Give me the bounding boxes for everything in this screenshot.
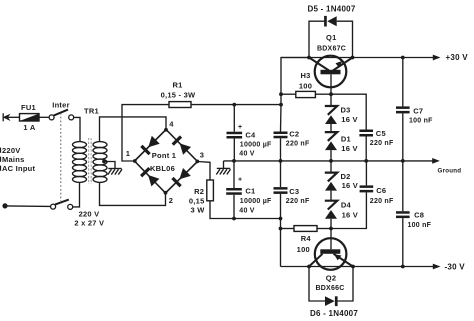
svg-text:BDX66C: BDX66C: [315, 285, 344, 292]
transistor Q2: [309, 229, 353, 270]
svg-text:TR1: TR1: [84, 106, 99, 115]
svg-text:R2: R2: [194, 187, 204, 196]
svg-text:KBL06: KBL06: [150, 164, 175, 173]
svg-text:2: 2: [169, 196, 173, 205]
svg-text:D3: D3: [341, 106, 351, 115]
node zener mid: [329, 159, 333, 163]
ground rail: [224, 158, 440, 164]
svg-text:C8: C8: [414, 210, 424, 219]
switch link dashed: [60, 113, 62, 201]
svg-text:FU1: FU1: [21, 103, 36, 112]
svg-text:AC Input: AC Input: [2, 164, 35, 173]
capacitor C6: [360, 161, 374, 193]
resistor R3: [281, 91, 331, 97]
zener D1: [325, 124, 337, 161]
wire pin3 to R2: [198, 162, 211, 181]
wire base Q2 to C6: [331, 192, 366, 228]
capacitor C4: [227, 105, 243, 161]
svg-text:Mains: Mains: [2, 155, 25, 164]
node riser: [279, 103, 283, 107]
capacitor C5: [359, 130, 373, 161]
svg-text:220 nF: 220 nF: [286, 198, 310, 205]
label 220V Mains AC Input: [0, 146, 35, 173]
svg-text:BDX67C: BDX67C: [317, 46, 346, 53]
svg-text:-30 V: -30 V: [445, 263, 466, 272]
node C2/C3: [279, 159, 283, 163]
capacitor C3: [274, 161, 288, 267]
svg-text:C6: C6: [376, 186, 386, 195]
ground (rail left end): [216, 161, 230, 175]
AC input dot bottom: [2, 203, 7, 208]
svg-text:100: 100: [297, 245, 310, 254]
node C7 top: [401, 56, 405, 60]
svg-text:1 A: 1 A: [23, 123, 35, 132]
wire base node to C5: [331, 94, 366, 129]
bridge rectifier Pont 1 KBL06: [133, 128, 199, 195]
zener D4: [325, 191, 337, 229]
switch S1a: [49, 110, 74, 120]
svg-text:1: 1: [126, 149, 130, 158]
svg-text:100 nF: 100 nF: [408, 222, 432, 229]
switch S1b: [51, 200, 73, 210]
node C4/C1: [232, 159, 236, 163]
svg-text:C3: C3: [289, 187, 299, 196]
wire bridge + to R1: [122, 105, 169, 161]
bridge diode top-right: [173, 137, 191, 155]
svg-text:D6 - 1N4007: D6 - 1N4007: [310, 309, 358, 318]
svg-text:220 nF: 220 nF: [370, 198, 394, 205]
wire secondary bottom to bridge AC2: [100, 182, 166, 205]
svg-text:3: 3: [200, 150, 204, 159]
svg-text:C4: C4: [245, 131, 256, 140]
node C8 bottom: [401, 265, 405, 269]
ground (center tap): [108, 169, 122, 175]
svg-text:3 W: 3 W: [190, 205, 205, 214]
svg-text:+30 V: +30 V: [446, 53, 469, 62]
svg-text:220 nF: 220 nF: [286, 140, 310, 147]
node C5 bottom: [364, 159, 368, 163]
svg-text:+: +: [238, 124, 242, 131]
resistor R1: [169, 102, 191, 108]
svg-text:16 V: 16 V: [342, 210, 358, 219]
svg-text:Q1: Q1: [326, 33, 337, 42]
svg-text:40 V: 40 V: [239, 207, 254, 214]
node Q2 left: [307, 265, 311, 269]
node Q2 right: [351, 265, 355, 269]
node Q1 right: [351, 56, 355, 60]
wire R1 to riser: [191, 104, 281, 106]
transistor Q1: [309, 56, 353, 94]
svg-text:10000 µF: 10000 µF: [240, 198, 272, 205]
node R3 left: [279, 92, 283, 96]
capacitor C2: [274, 105, 288, 161]
svg-text:H3: H3: [300, 71, 310, 80]
svg-text:C5: C5: [376, 129, 386, 138]
svg-text:4: 4: [169, 120, 174, 129]
svg-text:Pont 1: Pont 1: [152, 151, 176, 160]
svg-text:C2: C2: [289, 130, 299, 139]
transformer TR1 primary: [73, 142, 87, 183]
resistor R4: [281, 226, 332, 232]
svg-text:220V: 220V: [2, 146, 21, 155]
-30V rail: [281, 264, 441, 270]
svg-text:10000 µF: 10000 µF: [240, 141, 272, 148]
svg-text:D4: D4: [341, 201, 352, 210]
wire secondary top to bridge AC1: [100, 117, 167, 142]
node base Q2: [329, 227, 333, 231]
zener D3: [325, 94, 337, 124]
svg-text:0,15 - 3W: 0,15 - 3W: [161, 91, 196, 100]
bridge diode bottom-left: [141, 168, 159, 186]
svg-text:16 V: 16 V: [342, 181, 358, 190]
svg-text:100 nF: 100 nF: [409, 117, 433, 124]
svg-text:D2: D2: [341, 172, 351, 181]
svg-text:2 x 27 V: 2 x 27 V: [74, 218, 104, 227]
bridge diode top-left: [141, 136, 159, 154]
svg-text:+: +: [238, 176, 242, 183]
capacitor C1: [226, 161, 242, 219]
svg-text:R1: R1: [172, 81, 182, 90]
wire: [39, 116, 49, 118]
center tap: [102, 160, 115, 169]
wire: [74, 117, 80, 141]
svg-text:Q2: Q2: [326, 273, 337, 282]
svg-text:100: 100: [299, 81, 312, 90]
diode D6: [309, 267, 353, 307]
svg-text:16 V: 16 V: [341, 115, 357, 124]
svg-text:16 V: 16 V: [341, 144, 357, 153]
capacitor C8: [396, 161, 410, 267]
node C4 top: [232, 103, 236, 107]
resistor R2: [207, 180, 214, 201]
node corner: [279, 217, 283, 221]
svg-text:40 V: 40 V: [239, 150, 254, 157]
fuse FU1: [20, 114, 40, 121]
zener D2: [325, 161, 337, 191]
transformer core: [89, 138, 92, 184]
wire: [8, 116, 20, 118]
node base Q1: [329, 92, 333, 96]
diode D5: [309, 16, 353, 58]
capacitor C7: [396, 58, 410, 161]
svg-text:220 nF: 220 nF: [370, 140, 394, 147]
transformer TR1 secondary: [93, 142, 107, 183]
svg-text:C1: C1: [245, 187, 255, 196]
svg-text:0,15: 0,15: [189, 197, 205, 206]
bridge diode bottom-right: [173, 168, 191, 186]
svg-text:Ground: Ground: [438, 168, 462, 175]
svg-text:R4: R4: [301, 234, 312, 243]
wire: [73, 182, 80, 207]
svg-text:Inter: Inter: [52, 101, 70, 110]
wire positive riser: [281, 58, 309, 105]
node C7/C8: [401, 159, 405, 163]
node R4 corner: [279, 227, 283, 231]
svg-text:D1: D1: [341, 135, 351, 144]
wire R2 to raw negative rail: [210, 201, 281, 219]
+30V rail: [281, 55, 441, 61]
node C1 bottom: [232, 217, 236, 221]
wire: [5, 205, 51, 208]
svg-text:220 V: 220 V: [79, 209, 100, 218]
svg-text:D5 - 1N4007: D5 - 1N4007: [307, 4, 355, 13]
node Q1 left: [307, 56, 311, 60]
AC input arrow top: [3, 113, 11, 121]
svg-text:C7: C7: [413, 106, 423, 115]
